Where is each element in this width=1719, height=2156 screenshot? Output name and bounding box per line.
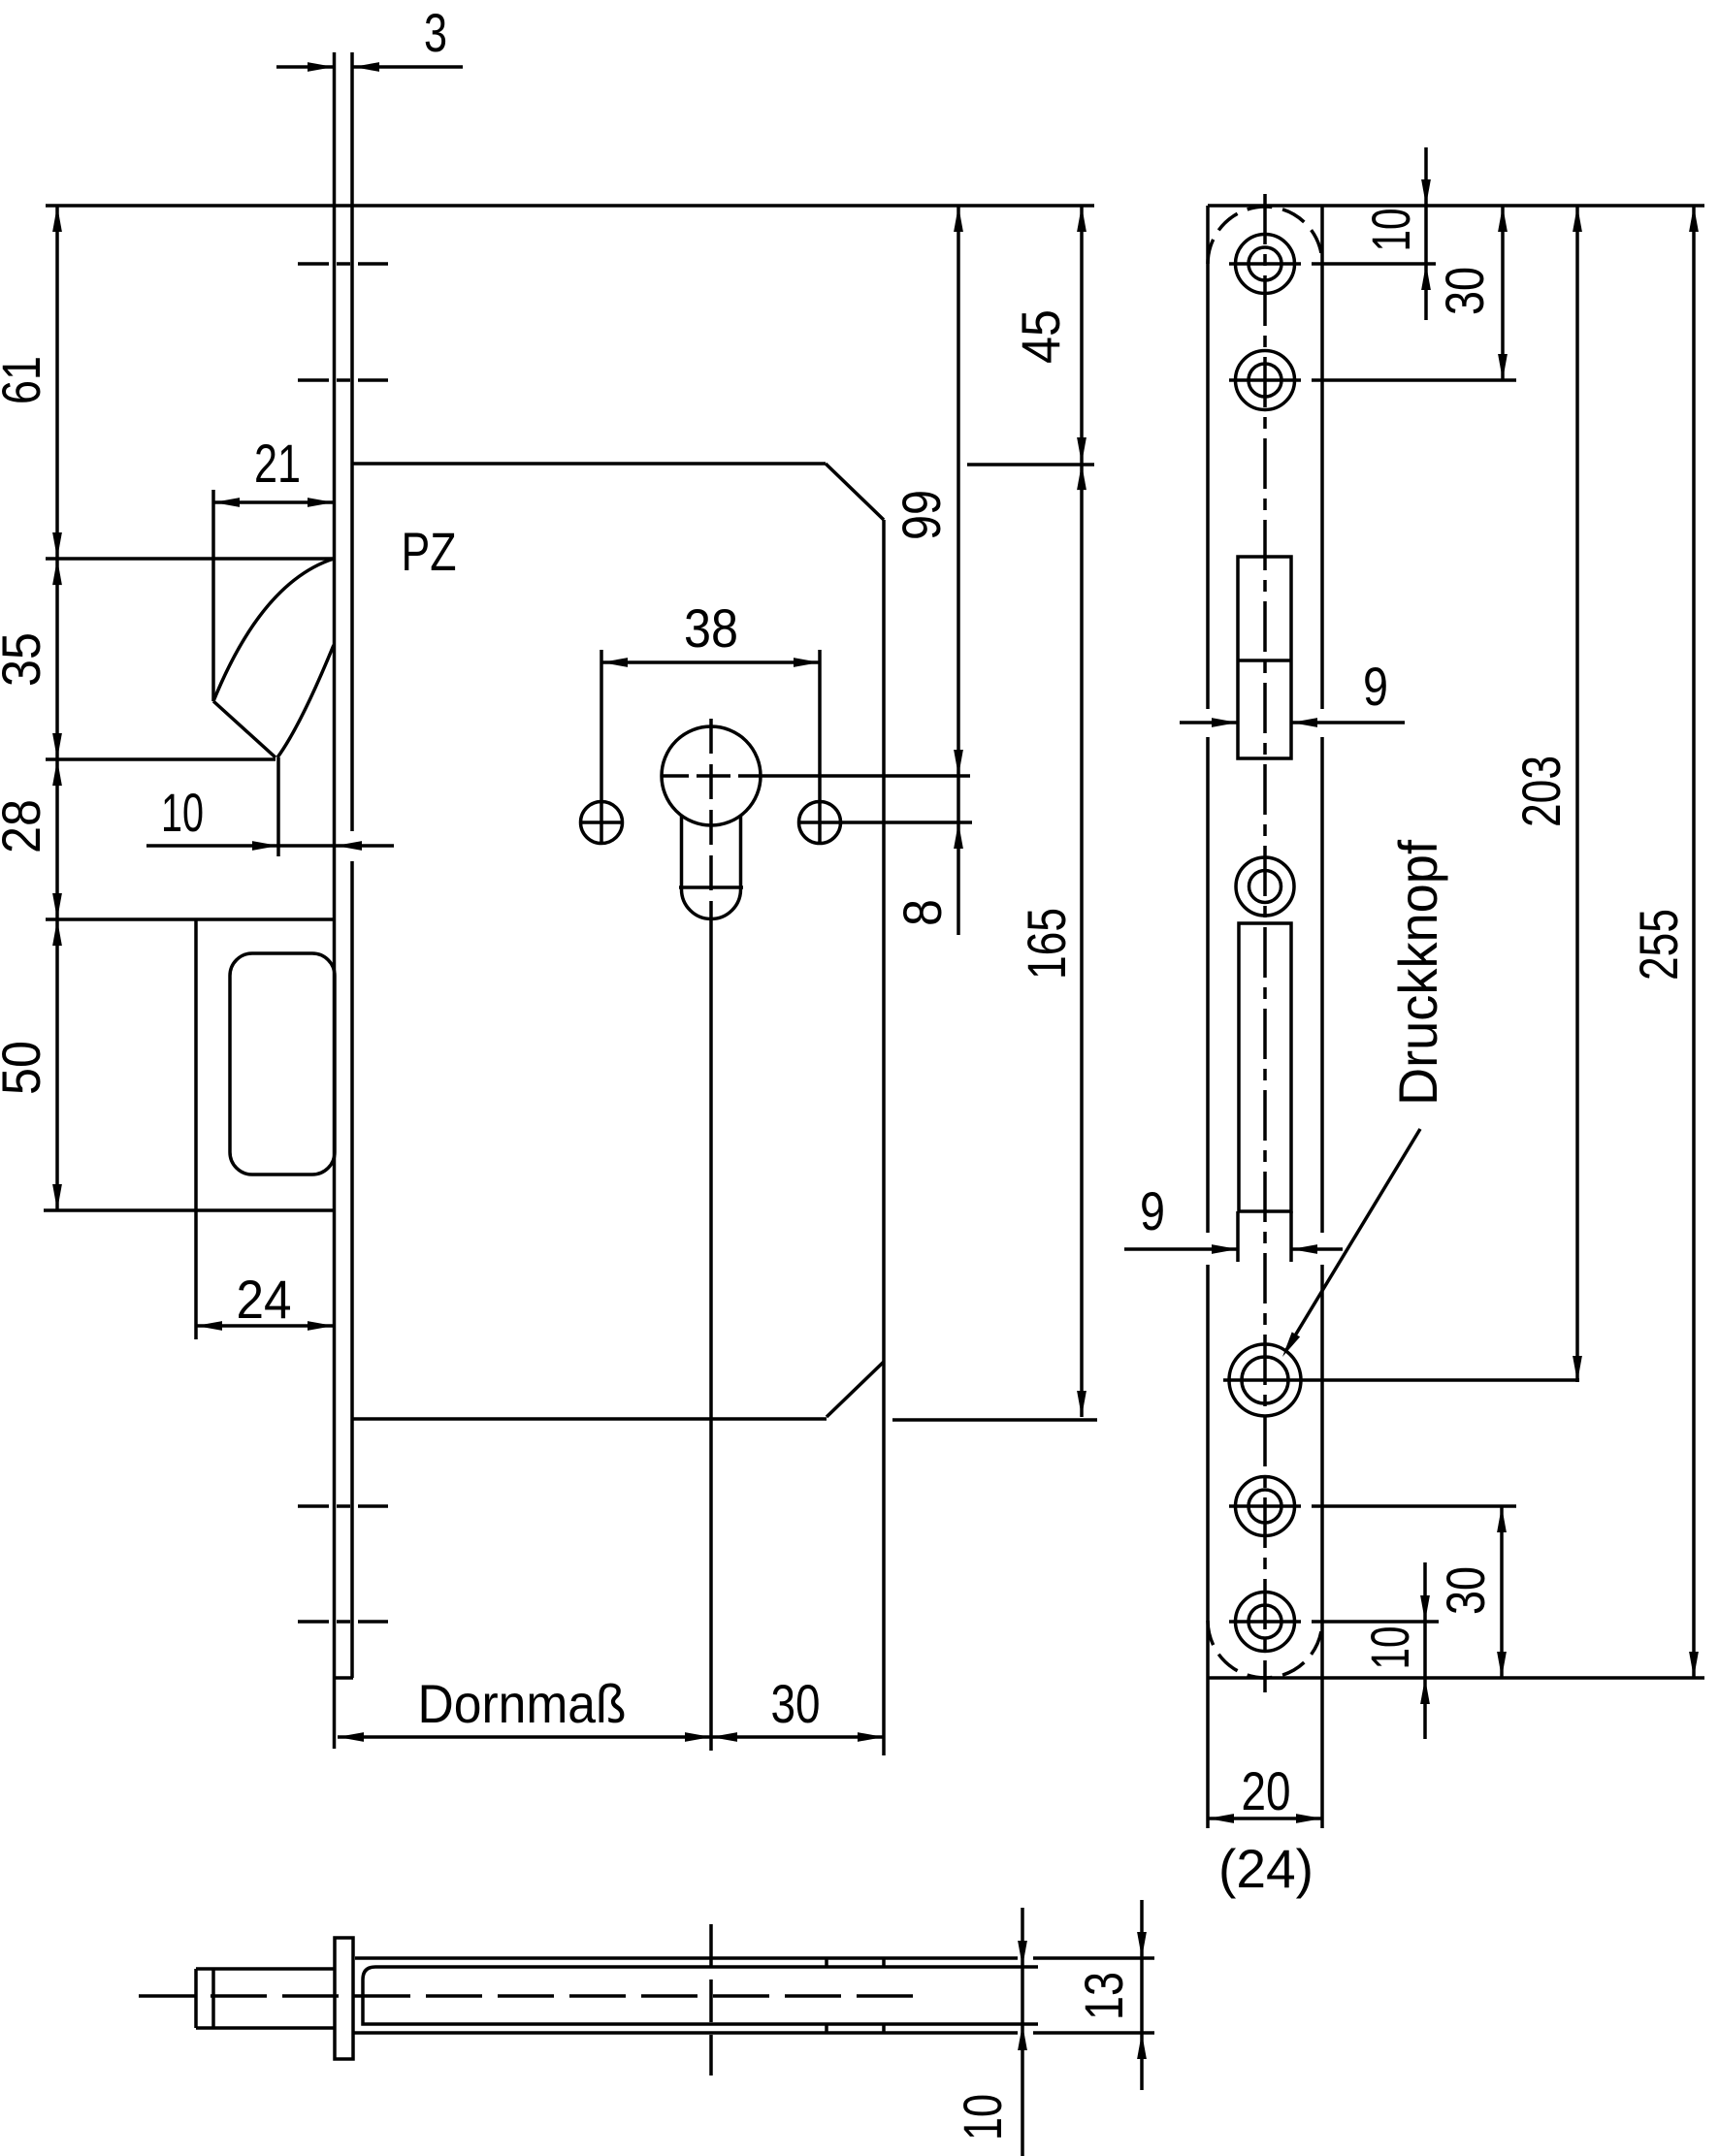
dim 24 (deadbolt) [196,1324,334,1328]
deadbolt opening [1239,923,1291,1211]
right fixing hole [799,802,841,844]
latch bevel curve lower [277,645,334,757]
plate left edge [1206,206,1210,709]
dim 10 top right [1424,147,1428,320]
case bottom chamfer [827,1362,884,1417]
screw hole bottom 2 [1236,1593,1295,1652]
faceplate left edge [333,52,337,1749]
ext hole top1 [1229,262,1301,266]
extension line y=948 (bolt top) [46,917,334,921]
rounded end dashed arc bottom [1208,1621,1322,1678]
svg-text:28: 28 [0,799,51,853]
svg-text:10: 10 [161,782,204,843]
ext stub top [1033,1956,1154,1960]
dim 203 [1575,206,1579,1382]
svg-text:30: 30 [1434,267,1495,315]
dim 10 (latch protrusion) [146,844,394,848]
svg-text:255: 255 [1628,909,1689,981]
extension line y=783 (latch bottom) [46,757,276,761]
svg-text:35: 35 [0,632,51,687]
rounded end dashed arc top [1208,207,1322,264]
svg-text:8: 8 [892,899,953,926]
dim 3 (faceplate thickness) [276,65,334,69]
dim 45 and 165 [1080,206,1084,1417]
svg-text:(24): (24) [1218,1838,1314,1899]
svg-text:50: 50 [0,1041,51,1095]
faceplate right edge lower [350,861,354,1678]
cylinder axis extended down [709,919,713,1751]
dim 20 (plate width) [1208,1817,1322,1820]
extension line y=576 (latch top) [46,557,334,561]
axis centerline horizontal [139,1994,922,1998]
case bottom edge [352,1417,827,1421]
Druckknopf pin [196,1967,335,1971]
case outer top [355,1956,1018,1960]
svg-text:3: 3 [424,2,447,63]
svg-text:13: 13 [1073,1972,1134,2020]
hole centerline / ext for dim 8 [797,821,972,824]
ext Druckknopf lower [1223,1378,1579,1382]
svg-text:9: 9 [1140,1180,1165,1241]
svg-text:61: 61 [0,356,51,404]
dim 30 bottom right [1500,1506,1504,1678]
dim 9 (latch slot width) [1180,721,1238,724]
PZ body bottom arc [682,889,741,918]
screw hole bottom 1 [1236,1477,1295,1536]
dim 30 (backset to case edge) [711,1735,884,1739]
latch rear edge / ext line [211,490,215,701]
svg-text:30: 30 [1435,1566,1496,1615]
extension line y=1464 [892,1418,1097,1422]
svg-text:Druckknopf: Druckknopf [1387,840,1448,1106]
dim 8 [957,776,960,935]
ext stub bottom [1033,2031,1154,2035]
case top reference line [46,204,1094,208]
faceplate screw hole mark y=392 [298,378,329,382]
deadbolt rear edge / ext line [194,919,198,1339]
plate right edge [1320,206,1324,709]
screw hole top 2 [1236,351,1295,410]
chamfer edge ticks [825,1958,828,1967]
svg-text:Dornmaß: Dornmaß [418,1673,627,1734]
screw hole top 1 [1236,235,1295,294]
dim chain 61/35/28/50 [55,206,59,1210]
dim 255 [1692,206,1696,1678]
faceplate bar [335,1938,353,2059]
svg-text:99: 99 [891,490,952,540]
svg-text:10: 10 [1360,209,1421,252]
ext hole top2 [1229,378,1301,382]
dim 9 (deadbolt slot width) [1124,1247,1238,1251]
faceplate screw hole mark y=272 [298,262,329,266]
deadbolt face rounded rect [230,953,335,1175]
case top edge [352,462,826,466]
dim 38 [600,650,603,842]
leader arrowhead [1282,1332,1300,1357]
ext hole bottom2 [1229,1504,1301,1508]
case top chamfer [826,464,884,520]
svg-text:203: 203 [1510,756,1572,827]
dim 99 [957,206,960,776]
svg-text:10: 10 [952,2094,1013,2140]
plate centerline [1263,194,1267,1692]
dim 10 bottom right [1423,1562,1427,1739]
cylinder axis vertical dash [709,1924,713,2076]
dim 10 bottom figure [1021,1908,1024,2156]
extension line y=479 [967,463,1094,467]
case inner outline [363,1967,1038,2024]
dim 21 (latch) [213,500,334,504]
Druckknopf leader line [1286,1129,1420,1350]
plate bottom edge + ext [1208,1676,1704,1680]
PZ cylinder circle [662,726,761,825]
faceplate screw hole mark y=1553 [298,1504,329,1508]
svg-text:20: 20 [1242,1760,1291,1821]
Druckknopf hole lower [1229,1344,1301,1416]
left fixing hole [581,802,623,844]
deadbolt slot edge extension lines [1236,1211,1240,1262]
plate top edge + ext [1208,204,1704,208]
case outer bottom [353,2031,1018,2035]
ext hole bottom1 [1229,1620,1301,1624]
PZ cylinder body [680,816,684,889]
svg-text:45: 45 [1010,309,1071,364]
faceplate right edge upper [350,52,354,831]
dim 13 bottom figure [1140,1900,1144,2090]
svg-text:PZ: PZ [402,521,457,582]
dim 30 top right [1501,206,1505,380]
dim Dornmass [338,1735,711,1739]
PZ centerlines [662,774,689,778]
case right edge + ext line [882,520,886,1755]
svg-text:10: 10 [1359,1626,1420,1670]
svg-text:21: 21 [254,433,301,494]
svg-text:24: 24 [237,1269,292,1330]
extension line y=1248 (bolt bottom) [44,1208,334,1212]
PZ body arc center dash [679,885,743,889]
latch bevel diagonal [213,701,276,757]
svg-text:30: 30 [771,1673,821,1734]
Druckknopf hole upper [1236,857,1294,916]
latch opening [1238,557,1291,758]
latch bevel curve upper [213,559,334,701]
faceplate bottom cap [334,1676,353,1680]
svg-text:38: 38 [684,597,738,659]
faceplate screw hole mark y=1672 [298,1620,329,1624]
svg-text:165: 165 [1016,908,1077,980]
ext line latch tip [276,757,280,856]
svg-text:9: 9 [1363,656,1388,717]
